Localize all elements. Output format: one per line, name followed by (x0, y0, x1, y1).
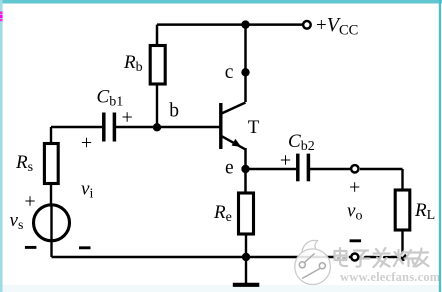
source vs (34, 205, 70, 241)
wire vo to RL (360, 168, 403, 170)
node b junction dot (153, 123, 161, 131)
label - (vo) (350, 239, 362, 242)
svg-text:c: c (225, 62, 234, 83)
terminal vo- on rail (351, 254, 358, 261)
junction dot RL bottom (398, 253, 406, 261)
wire RL to rail (401, 230, 403, 257)
resistor Rb (150, 46, 165, 85)
wire left drop to Rs (50, 127, 52, 145)
wire e to Cb2 (246, 168, 297, 170)
wire top rail (157, 23, 302, 26)
transistor T emitter lead with arrow (221, 136, 245, 149)
wire input to Cb1 (51, 126, 102, 128)
registration marks magenta (0, 11, 3, 14)
watermark url www.elecfans.com (340, 270, 442, 285)
terminal vo+ (351, 165, 358, 172)
node c dot (241, 68, 249, 76)
svg-text:T: T (248, 117, 260, 138)
resistor Rs (44, 144, 58, 184)
wire Rs to source (50, 183, 52, 206)
junction dot Re/ground (242, 253, 250, 261)
wire bottom rail (52, 256, 403, 258)
border right (439, 0, 441, 292)
transistor T collector lead (221, 103, 246, 114)
svg-text:+: + (349, 176, 360, 198)
faint bottom wash (0, 285, 442, 292)
svg-text:e: e (225, 158, 234, 179)
watermark logo circle (295, 240, 331, 284)
wire source to ground rail (50, 241, 52, 257)
resistor RL (395, 190, 410, 230)
capacitor Cb1 (102, 113, 106, 142)
capacitor Cb2 (296, 154, 300, 182)
wire Rb top lead (156, 25, 159, 46)
node e dot (241, 165, 249, 173)
resistor Re (239, 193, 254, 234)
svg-text:+: + (24, 190, 35, 212)
wire Cb2 to vo terminal (310, 168, 350, 170)
label - (vi) (79, 246, 91, 249)
transistor T base bar (219, 103, 222, 149)
svg-text:b: b (169, 100, 179, 121)
wire Re to rail (245, 233, 247, 257)
svg-text:+: + (81, 132, 92, 154)
svg-text:+: + (122, 106, 133, 128)
wire Rb bottom lead (156, 84, 158, 127)
border top (0, 0, 442, 4)
border left (0, 0, 3, 292)
watermark text 电子发烧友 (hand-drawn glyph strokes) (335, 248, 430, 268)
wire Cb1 to base (116, 126, 220, 128)
ground (245, 257, 247, 283)
svg-text:+: + (280, 149, 291, 171)
junction dot top rail (241, 20, 249, 28)
terminal +VCC (303, 21, 311, 29)
label - (vs) (25, 246, 37, 249)
svg-text:www.elecfans.com: www.elecfans.com (340, 270, 441, 284)
